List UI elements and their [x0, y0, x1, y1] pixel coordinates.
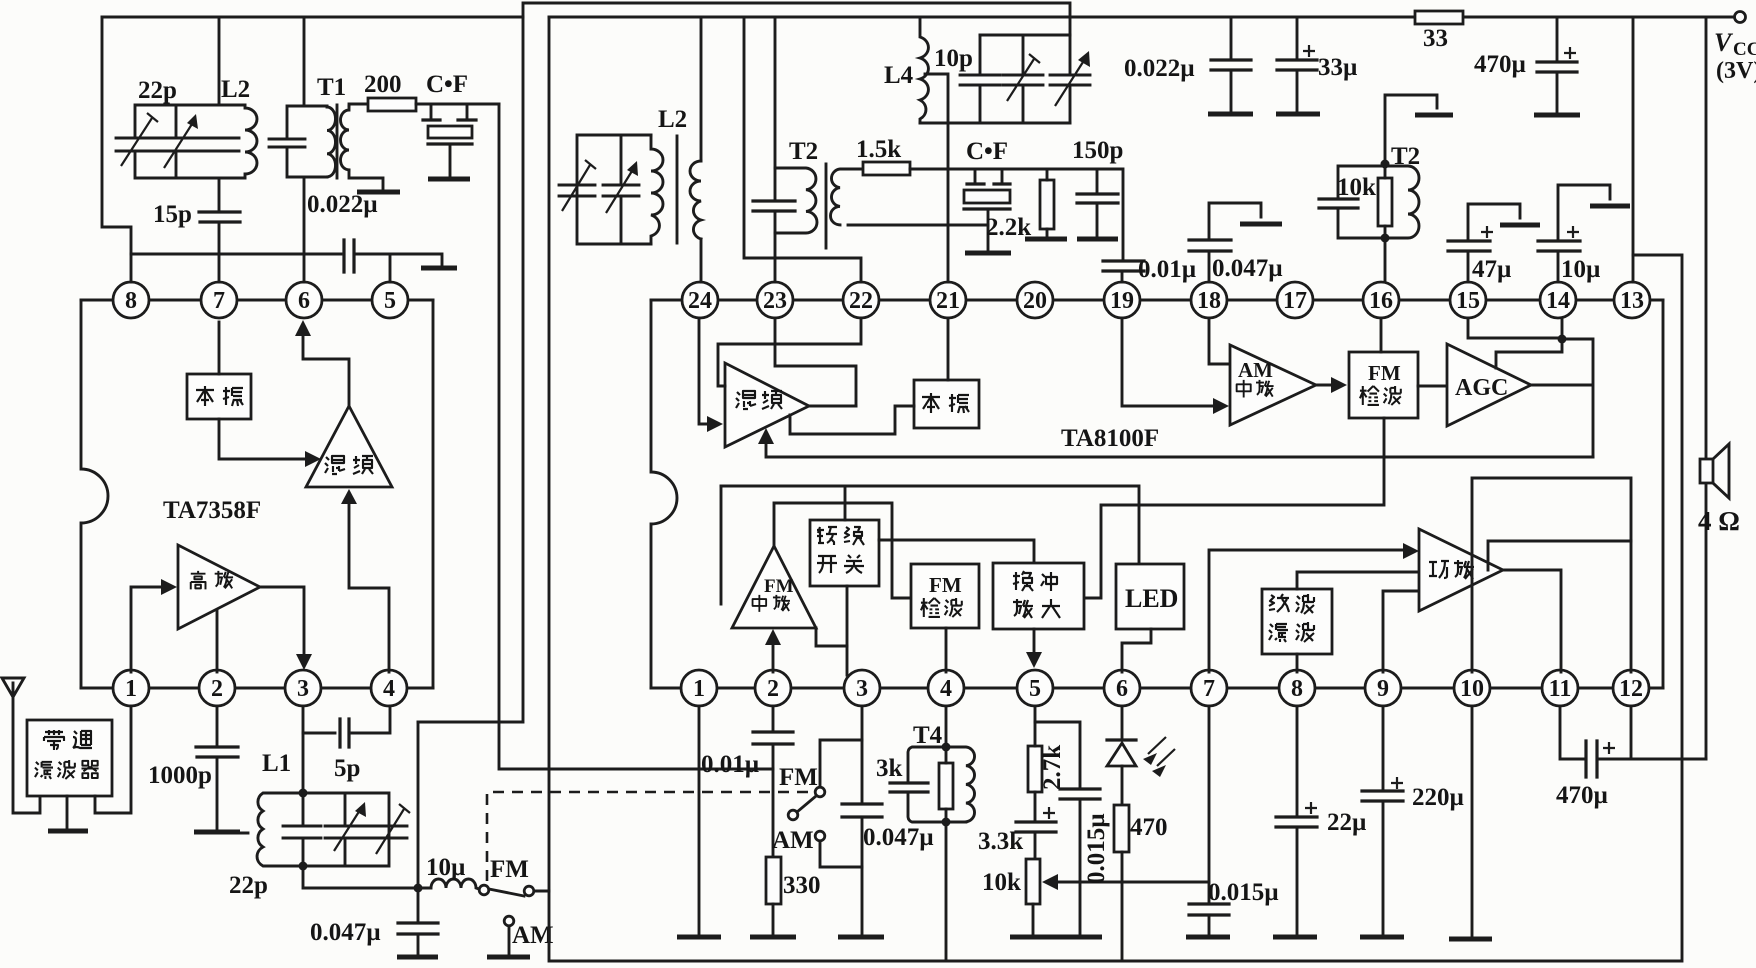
wire LED box bottom to pin 6: [1122, 629, 1151, 672]
label gaofang U1: [191, 571, 233, 589]
svg-text:22p: 22p: [229, 872, 268, 899]
resistor 2.2k: [1040, 180, 1054, 229]
trimmer arrow right gang: [164, 124, 192, 168]
wire AGC output loop: [1531, 339, 1593, 457]
capacitor 33u electrolytic: [1296, 17, 1299, 111]
pin 7 of U1: [201, 282, 237, 318]
switch S1b blade and pole: [788, 810, 798, 820]
amp FM IF triangle: [732, 546, 816, 628]
wire tank bottom node up to loop: [417, 722, 420, 888]
pot 10k: [1026, 859, 1040, 904]
svg-text:150p: 150p: [1072, 137, 1123, 164]
node dots T2b: [1381, 160, 1390, 169]
label daitong lvboqi: [44, 730, 92, 750]
svg-text:2: 2: [211, 676, 223, 702]
pin 10 of U2: [1454, 670, 1490, 706]
trimmer slash mid gang: [1007, 54, 1040, 101]
trimmer slash left gang: [562, 160, 596, 211]
svg-text:1000p: 1000p: [148, 762, 212, 789]
wire T2a secondary bottom long lead: [848, 224, 988, 227]
wire pin19 to AM IF amp input arrow: [1122, 318, 1216, 406]
pin 11 of U2: [1542, 670, 1578, 706]
svg-text:200: 200: [364, 71, 402, 98]
capacitor 0.015u first: [1060, 789, 1100, 799]
wire converter box top to inner bus: [844, 486, 847, 520]
pin 20 of U2: [1017, 282, 1053, 318]
svg-text:10µ: 10µ: [1561, 256, 1600, 283]
resistor 200: [368, 98, 416, 111]
wire 10k wiper arrow from pin7 line: [1056, 881, 1209, 884]
node dot L1 top: [299, 789, 308, 798]
wire bias bus y254 pins 8-7-6 to 0.022u: [131, 253, 341, 256]
transformer T4 detector tank: [890, 706, 975, 827]
coil L2b primary bumps: [651, 135, 663, 244]
wire BPF output to pin 1: [95, 706, 131, 813]
pin 15 of U2: [1450, 282, 1486, 318]
capacitor plates on T1 primary: [269, 139, 305, 147]
wire IC1 left edge with notch: [81, 300, 108, 688]
wire FM contact up to pin3 stem: [820, 740, 862, 787]
osc box U1 (local oscillator): [187, 374, 251, 419]
svg-text:(3V): (3V): [1716, 58, 1756, 84]
wire FM det bottom to buffer: [1084, 418, 1384, 598]
capacitor 470u output electrolytic: [1560, 706, 1706, 759]
wire pin3 down through L1 tank node: [303, 706, 418, 888]
ground bar AM contact: [487, 955, 530, 960]
switch box converter: [810, 520, 879, 586]
svg-text:L2: L2: [658, 106, 687, 133]
svg-text:33: 33: [1423, 25, 1448, 52]
ground bar pin10: [1449, 937, 1492, 942]
pin 12 of U2: [1613, 670, 1649, 706]
svg-text:1: 1: [693, 676, 705, 702]
resistor 33 in rail: [1415, 11, 1463, 24]
svg-text:T4: T4: [913, 722, 943, 749]
wire BPF center tap to ground: [66, 796, 69, 828]
svg-text:24: 24: [688, 288, 712, 314]
trimmer arrow right gang: [606, 171, 632, 213]
pin 6 of U2: [1104, 670, 1140, 706]
svg-text:22: 22: [849, 288, 873, 314]
svg-text:T2: T2: [789, 138, 818, 165]
switch S1b AM contact: [815, 831, 825, 841]
wire pin18 to AM IF amp: [1209, 318, 1230, 364]
svg-text:6: 6: [298, 288, 310, 314]
capacitor 0.047u pin18: [1209, 203, 1261, 240]
wire output hook to pin12 branch: [1488, 541, 1631, 570]
svg-text:220µ: 220µ: [1412, 784, 1464, 811]
svg-text:0.047µ: 0.047µ: [1212, 255, 1283, 282]
capacitor 22p / inductor L2 antenna tank box: [116, 105, 257, 178]
inductor 10u choke: [418, 879, 479, 889]
wire IC2 bottom edge segments: [651, 687, 1663, 690]
capacitor plates rows: [559, 185, 639, 196]
wire ripple filter top to power amp: [1297, 572, 1419, 589]
wire T1 secondary bottom to ground: [349, 170, 383, 190]
capacitor 10u pin14: [1558, 185, 1610, 241]
wire osc feed x744 rail to pin 22: [744, 17, 861, 282]
ground bar 0.047u: [397, 955, 438, 960]
wire IC2 top edge segments: [651, 299, 1663, 302]
svg-text:6: 6: [1116, 676, 1128, 702]
ground bar 33u: [1276, 112, 1320, 117]
pin 7 of U2: [1191, 670, 1227, 706]
ground bar T1 secondary: [357, 190, 400, 195]
svg-text:1.5k: 1.5k: [856, 136, 901, 163]
resistor 1.5k: [863, 162, 910, 175]
wire pin7 to osc box: [218, 322, 221, 374]
ground bar pin1 U2: [677, 935, 721, 940]
trimmer slash right gang: [376, 804, 410, 854]
wire pin1 up to RF amp input with arrow: [131, 587, 165, 672]
pin 1 of U1: [113, 670, 149, 706]
wire 200 to ceramic filter and to IF takeoff corner: [416, 103, 499, 106]
ground bar 150p: [1077, 237, 1118, 242]
wire converter box right to buffer top: [879, 540, 1034, 563]
coil T2b: [1385, 166, 1419, 238]
svg-text:0.047µ: 0.047µ: [310, 919, 381, 946]
det box FM detector upper: [1349, 352, 1418, 418]
svg-text:5p: 5p: [334, 755, 360, 782]
wire left supply rail top: [102, 16, 523, 19]
svg-text:L1: L1: [262, 750, 291, 777]
wire mixer output: [809, 405, 856, 408]
svg-text:13: 13: [1620, 288, 1644, 314]
svg-text:3: 3: [856, 676, 868, 702]
wire FM IF takeoff CF1 down to pin2 of U2 (x499): [499, 104, 773, 769]
pin 19 of U2: [1104, 282, 1140, 318]
wire converter box bottom to pin 3: [846, 586, 849, 675]
wire pin24 to mixer input arrow: [699, 318, 710, 424]
svg-text:15: 15: [1456, 288, 1480, 314]
svg-text:7: 7: [1203, 676, 1215, 702]
svg-text:CC: CC: [1733, 39, 1756, 60]
ground bar 220u: [1360, 935, 1404, 940]
ground bar 10k: [1010, 935, 1060, 940]
pin 4 of U2: [928, 670, 964, 706]
amp box buffer: [993, 563, 1084, 629]
speaker 4ohm: [1700, 444, 1729, 498]
node dot AGC: [1558, 335, 1567, 344]
svg-text:V: V: [1714, 28, 1734, 57]
switch S1a FM contact circles and blade: [479, 885, 549, 896]
svg-text:9: 9: [1377, 676, 1389, 702]
wire pin2 to RF amp bottom: [216, 611, 219, 672]
transformer T2a primary coil: [775, 168, 817, 233]
wire pin16 to FM det: [1380, 318, 1383, 352]
label hunpin U1: [325, 456, 373, 474]
label benzhen U2: [922, 393, 969, 413]
transformer T2b IF tank: [1319, 95, 1453, 243]
svg-text:T1: T1: [317, 74, 346, 101]
capacitor T2a tank cap plates: [753, 201, 795, 211]
svg-text:470µ: 470µ: [1474, 51, 1526, 78]
svg-text:4: 4: [383, 676, 395, 702]
svg-text:15p: 15p: [153, 201, 192, 228]
transformer L2b tank with trimmers: [559, 135, 663, 244]
capacitor plates rows: [116, 138, 239, 151]
wire rail down to pin 13: [1632, 17, 1635, 282]
capacitor 0.047u at switch: [417, 888, 420, 954]
svg-text:L2: L2: [221, 76, 250, 103]
transformer T2a core: [825, 164, 828, 248]
svg-text:4 Ω: 4 Ω: [1698, 506, 1740, 536]
svg-text:470: 470: [1130, 814, 1168, 841]
wire FM IF amp output corner to pin3 stem: [816, 628, 847, 646]
pin 3 of U2: [844, 670, 880, 706]
wire IC1 bottom edge segments: [81, 687, 433, 690]
wire feedback pin10 through triangle to pin12: [1472, 478, 1631, 672]
pin 5 of U1: [372, 282, 408, 318]
node dot L1 bottom: [299, 862, 308, 871]
resistor 10k inside T2b: [1378, 178, 1392, 226]
pin 8 of U2: [1279, 670, 1315, 706]
svg-text:33µ: 33µ: [1318, 54, 1357, 81]
wire pin5 node to 0.015u branch: [1035, 722, 1080, 934]
svg-text:8: 8: [1291, 676, 1303, 702]
pin 8 of U1: [113, 282, 149, 318]
svg-text:FM: FM: [929, 573, 962, 597]
svg-text:C•F: C•F: [966, 138, 1008, 165]
svg-text:LED: LED: [1125, 584, 1178, 613]
capacitor 5p pin3 to pin4: [303, 706, 390, 733]
pin 2 of U2: [755, 670, 791, 706]
wire buffer output to pin 5 arrow: [1033, 629, 1036, 655]
capacitor 22u pin8: [1296, 706, 1299, 934]
svg-text:14: 14: [1546, 288, 1570, 314]
ground bar pin5 bias: [421, 266, 457, 271]
wire T4 bottom to border: [945, 822, 948, 961]
svg-text:11: 11: [1549, 676, 1572, 702]
label benzhen U1: [196, 386, 243, 406]
ground bar 0.015u first: [1058, 935, 1102, 940]
amp U1 mixer triangle: [306, 406, 392, 487]
amp AGC triangle: [1447, 344, 1531, 426]
wire pin7 up and to power amp arrow: [1209, 550, 1406, 672]
switch S1b FM contact: [815, 787, 825, 797]
switch S1a AM contact: [504, 916, 514, 954]
wire T1 secondary top to 200 resistor: [349, 104, 368, 106]
pin 22 of U2: [843, 282, 879, 318]
capacitor 220u pin9: [1382, 706, 1385, 934]
svg-text:AM: AM: [512, 922, 554, 949]
trimmer arrow right gang: [1055, 62, 1083, 106]
ceramic filter CF1: [423, 104, 476, 176]
pin 21 of U2: [930, 282, 966, 318]
svg-text:2.7k: 2.7k: [1039, 745, 1066, 790]
wire ground trunk x549 down and bottom border: [549, 17, 1682, 961]
svg-text:19: 19: [1110, 288, 1134, 314]
wire oscillator tank loop (x523 big loop to L4 tank): [418, 3, 1070, 722]
capacitor 47u: [1468, 204, 1520, 241]
capacitor 3.3k electrolytic: [1016, 822, 1056, 832]
ground bar 1000p: [194, 830, 240, 835]
transformer T1 secondary coil: [341, 106, 350, 170]
wire pin10 to ground: [1471, 706, 1474, 936]
wire left rail corner down to pin 8: [102, 17, 131, 282]
tank box 22p: [303, 793, 389, 866]
wire 0.022u right to pin5 node and ground step: [354, 254, 442, 266]
svg-text:7: 7: [213, 288, 225, 314]
svg-text:AM: AM: [772, 827, 814, 854]
svg-text:3: 3: [297, 676, 309, 702]
svg-text:10k: 10k: [1337, 174, 1376, 201]
ground bar 22u: [1273, 935, 1317, 940]
svg-text:AM: AM: [1238, 358, 1273, 382]
capacitor 1000p: [196, 747, 238, 757]
osc box U2: [914, 380, 979, 428]
inductor L4: [920, 17, 928, 123]
svg-text:0.047µ: 0.047µ: [863, 824, 934, 851]
svg-text:0.015µ: 0.015µ: [1083, 813, 1110, 884]
amp U1 RF amp triangle: [178, 545, 260, 629]
label wenbo lvbo: [1269, 594, 1314, 642]
capacitor 0.022u coupling: [344, 240, 354, 272]
wire IC1 right edge: [432, 300, 435, 688]
capacitor plates rows: [283, 826, 407, 838]
wire ripple filter bottom to pin 8: [1296, 654, 1299, 672]
transformer L2b core: [676, 136, 679, 243]
wire pin9 to power amp: [1383, 591, 1419, 672]
LED D1: [1121, 706, 1124, 740]
wire main supply rail right section: [549, 16, 1733, 19]
wire pin12 down to 470u node: [1630, 706, 1633, 759]
svg-text:0.01µ: 0.01µ: [701, 751, 759, 778]
amp AM IF triangle: [1230, 345, 1316, 425]
terminal Vcc: [1735, 12, 1746, 23]
antenna: [2, 678, 40, 813]
ceramic filter CF2: [964, 169, 1010, 250]
pin 18 of U2: [1191, 282, 1227, 318]
svg-text:17: 17: [1283, 288, 1307, 314]
svg-text:47µ: 47µ: [1472, 256, 1511, 283]
box ripple filter: [1262, 589, 1332, 654]
resistor 330: [766, 857, 781, 904]
capacitor 15p: [199, 212, 240, 222]
wire pin7 stem up through 15p and L2 tank to rail: [218, 17, 221, 282]
pin 6 of U1: [286, 282, 322, 318]
wire FM det to AGC: [1418, 385, 1447, 388]
svg-text:16: 16: [1369, 288, 1393, 314]
amp U2 mixer triangle: [725, 363, 809, 447]
transformer L2b secondary coil to pin 24: [700, 17, 703, 282]
dashed gang link S1: [487, 792, 808, 884]
label huanchong fangda: [1013, 571, 1060, 618]
svg-text:330: 330: [783, 872, 821, 899]
transformer T1 core: [336, 105, 339, 178]
ground bar 0.015u second: [1186, 935, 1230, 940]
trimmer slash left gang: [121, 113, 158, 166]
svg-text:12: 12: [1619, 676, 1643, 702]
svg-text:4: 4: [940, 676, 952, 702]
ground bar 0.047u pin3: [838, 935, 884, 940]
svg-text:FM: FM: [764, 576, 794, 597]
svg-text:C•F: C•F: [426, 71, 468, 98]
wire AM IF out to FM det arrow: [1316, 384, 1334, 387]
wire L4 tap to pin 21: [925, 74, 948, 282]
wire osc box to mixer with arrow: [219, 419, 310, 459]
svg-text:8: 8: [125, 288, 137, 314]
wire FM det lower to pin 4: [945, 628, 948, 672]
inductor L1 with tank: [232, 793, 410, 866]
wire Vcc branch down through speaker: [1705, 17, 1708, 759]
wire T2a secondary top to 1.5k: [848, 168, 863, 171]
svg-text:0.015µ: 0.015µ: [1208, 879, 1279, 906]
amp power amp triangle: [1419, 529, 1503, 611]
pin 17 of U2: [1277, 282, 1313, 318]
pin 14 of U2: [1540, 282, 1576, 318]
svg-text:FM: FM: [1368, 361, 1401, 385]
wire pin22 to mixer upper input: [718, 318, 861, 386]
resistor 470: [1114, 805, 1129, 852]
svg-text:10k: 10k: [982, 869, 1021, 896]
svg-text:3k: 3k: [876, 755, 903, 782]
ground bar 2.2k: [1025, 237, 1067, 242]
IC U2 TA8100F body outline: [651, 300, 1663, 688]
label gongfang: [1429, 560, 1474, 579]
wire inner bus left drop to FM IF amp: [720, 486, 723, 604]
wire T2b to pin 16: [1384, 238, 1387, 282]
tank left branch with cap: [1338, 166, 1385, 238]
pin 13 of U2: [1614, 282, 1650, 318]
capacitor 0.01u to pin 19: [1103, 261, 1144, 271]
svg-text:20: 20: [1023, 288, 1047, 314]
transformer T2a secondary coil: [831, 169, 849, 225]
node dot tank bottom rail: [414, 884, 423, 893]
resistor 2.7k pin5: [1028, 746, 1042, 792]
coil T1 primary bumps: [327, 106, 336, 177]
svg-text:TA8100F: TA8100F: [1061, 425, 1159, 452]
L1 tap stub: [232, 832, 248, 835]
pin 4 of U1: [371, 670, 407, 706]
ground bar 330: [750, 935, 796, 940]
wire pin2 to FM IF amp input arrow: [772, 641, 775, 672]
wire pin23 to mixer output: [775, 318, 856, 406]
ground bar 470u top: [1534, 113, 1580, 118]
wire pin21 to osc box: [947, 318, 950, 380]
pin 23 of U2: [757, 282, 793, 318]
wire pin5 stem up to bias bus: [389, 254, 392, 282]
svg-text:22µ: 22µ: [1327, 809, 1366, 836]
wire power amp output to pin 11: [1503, 570, 1561, 672]
svg-text:5: 5: [384, 288, 396, 314]
svg-text:21: 21: [936, 288, 960, 314]
LED arrows: [1148, 737, 1175, 766]
svg-text:TA7358F: TA7358F: [163, 497, 261, 524]
ground bar 0.022u rail: [1208, 112, 1253, 117]
wire inner top bus y486: [721, 486, 1139, 564]
pin 2 of U1: [199, 670, 235, 706]
capacitor 0.047u pin3: [861, 706, 864, 934]
pin 9 of U2: [1365, 670, 1401, 706]
pin 24 of U2: [682, 282, 718, 318]
wire pin6 stem up through T1 tank to rail: [303, 17, 306, 282]
wire IC2 left edge with notch: [651, 300, 677, 688]
svg-text:5: 5: [1029, 676, 1041, 702]
wire IC1 top edge segments: [81, 299, 433, 302]
pin 5 of U2: [1017, 670, 1053, 706]
wire mixer bottom input from pin 4 with arrow: [349, 501, 389, 672]
capacitor plates rows: [960, 75, 1090, 85]
step ground T2b: [1385, 95, 1437, 163]
transformer T1 primary tank: [269, 106, 336, 177]
svg-text:0.01µ: 0.01µ: [1138, 256, 1196, 283]
ground bar BPF: [48, 829, 88, 834]
capacitor 150p: [1096, 169, 1099, 236]
det box FM detector lower: [911, 564, 979, 628]
bandpass filter box: [27, 720, 112, 796]
svg-text:0.022µ: 0.022µ: [1124, 55, 1195, 82]
